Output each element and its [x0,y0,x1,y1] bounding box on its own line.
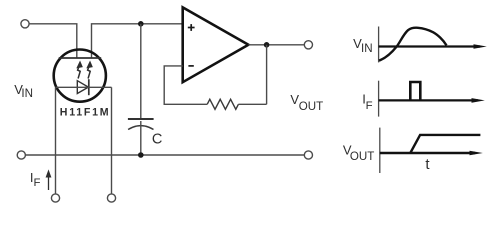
plot2 horizontal axis [379,99,478,101]
plot2 I_F vertical axis [378,81,380,117]
plot3 axis arrowhead [470,151,483,156]
wire feedback right vertical [266,45,268,105]
wire feedback bottom right [238,103,266,105]
svg-text:H11F1M: H11F1M [60,107,111,119]
svg-text:C: C [152,132,162,148]
plot1 axis arrowhead [474,44,487,49]
terminal T1 top-left [21,20,29,28]
LED cathode lead down [111,87,113,194]
photon arrow right [88,62,92,78]
plot3 V_OUT vertical axis [379,128,381,173]
terminal T4 bottom-right [304,151,312,159]
wire op-amp output [248,44,304,46]
plot1 V_IN vertical axis [378,27,380,63]
plot1 horizontal axis [379,45,480,47]
photon arrow left [78,62,82,78]
IF direction arrow [47,171,51,190]
op-amp + sign [188,24,195,31]
FET bar inside optocoupler [59,57,101,59]
capacitor C top plate [128,118,154,120]
wire right FET lead to +input [92,24,184,58]
svg-text:OUT: OUT [350,150,374,163]
node junction output [264,42,270,48]
capacitor C bottom plate (arc) [128,126,153,130]
bottom rail wire [25,154,304,156]
svg-text:IN: IN [361,42,373,55]
LED cathode bar [88,79,90,95]
terminal T6 cathode bottom [107,194,115,202]
LED anode lead down [55,87,57,194]
node junction top (to capacitor) [138,21,144,27]
plot2 IF pulse waveform [410,82,420,100]
svg-text:OUT: OUT [299,100,323,113]
op-amp U2 [183,7,249,82]
terminal T5 anode bottom [51,194,59,202]
plot3 horizontal axis [380,152,475,154]
svg-text:F: F [366,100,373,112]
node junction capacitor-rail [138,152,144,158]
svg-text:IN: IN [21,87,33,100]
plot2 axis arrowhead [472,98,485,103]
terminal T2 Vout [304,41,312,49]
terminal T3 bottom-left [17,151,25,159]
plot3 Vout waveform [410,135,480,153]
svg-text:F: F [34,177,41,189]
op-amp - sign [188,65,193,67]
LED D1 triangle [77,81,88,94]
capacitor bottom lead [140,121,142,155]
wire feedback bottom left [164,66,207,104]
optocoupler U1 circle [54,50,106,102]
LED wire (package top) [56,86,112,88]
resistor R1 [207,99,238,109]
wire T1 to left FET lead [29,24,77,58]
plot1 Vin waveform [379,28,447,61]
wire junction down to capacitor [140,24,142,119]
